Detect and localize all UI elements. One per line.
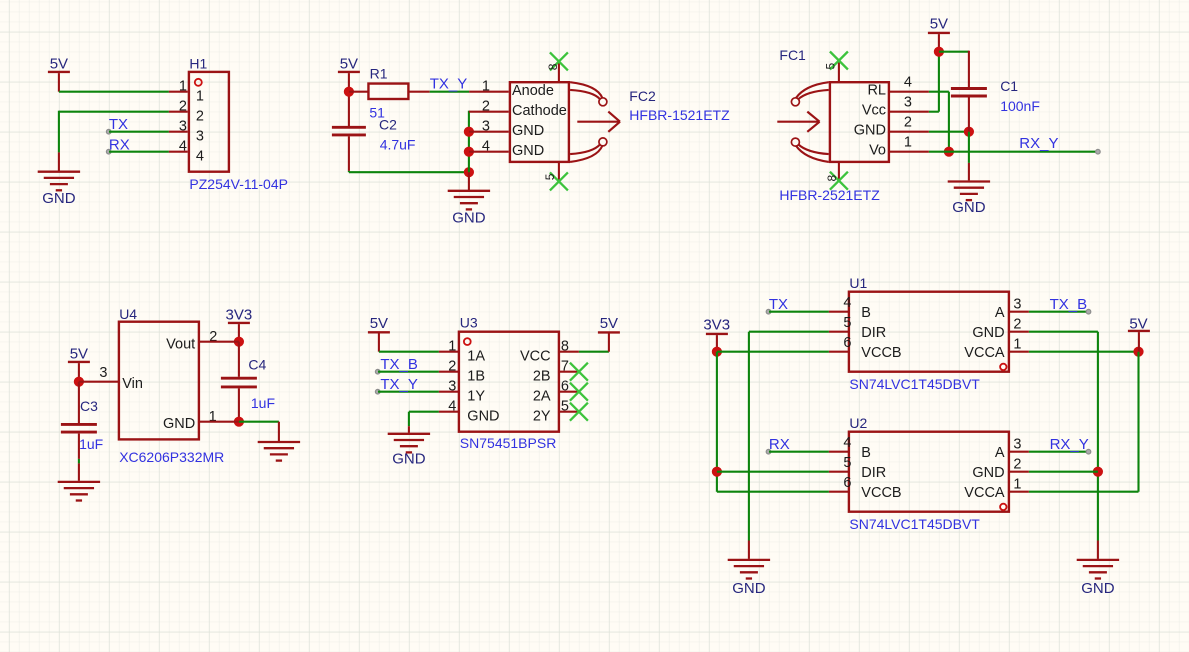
svg-text:3: 3 xyxy=(904,95,912,111)
svg-text:GND: GND xyxy=(732,580,766,597)
svg-text:GND: GND xyxy=(42,190,76,207)
svg-text:HFBR-1521ETZ: HFBR-1521ETZ xyxy=(629,107,730,123)
svg-text:FC2: FC2 xyxy=(629,88,656,104)
svg-text:5: 5 xyxy=(843,315,851,331)
svg-text:SN74LVC1T45DBVT: SN74LVC1T45DBVT xyxy=(849,376,980,392)
svg-text:4: 4 xyxy=(843,435,851,451)
svg-text:2: 2 xyxy=(904,115,912,131)
svg-text:1: 1 xyxy=(1013,477,1021,493)
svg-text:5: 5 xyxy=(543,173,557,180)
svg-text:5V: 5V xyxy=(930,15,948,32)
svg-text:2: 2 xyxy=(1013,457,1021,473)
svg-text:GND: GND xyxy=(972,465,1004,481)
svg-text:C3: C3 xyxy=(80,398,98,414)
svg-text:1uF: 1uF xyxy=(251,395,275,411)
svg-text:DIR: DIR xyxy=(861,325,886,341)
svg-text:RL: RL xyxy=(867,83,886,99)
svg-text:4: 4 xyxy=(843,295,851,311)
svg-text:Vo: Vo xyxy=(869,143,886,159)
svg-text:1A: 1A xyxy=(467,349,485,365)
svg-text:H1: H1 xyxy=(189,56,207,72)
svg-text:TX_Y: TX_Y xyxy=(380,376,418,393)
svg-text:8: 8 xyxy=(825,175,839,182)
svg-text:DIR: DIR xyxy=(861,465,886,481)
svg-text:U1: U1 xyxy=(849,275,867,291)
svg-text:1: 1 xyxy=(196,89,204,105)
svg-text:5: 5 xyxy=(843,455,851,471)
svg-text:4: 4 xyxy=(904,75,912,91)
svg-text:2A: 2A xyxy=(533,389,551,405)
svg-text:PZ254V-11-04P: PZ254V-11-04P xyxy=(189,176,288,192)
svg-text:5: 5 xyxy=(823,63,837,70)
svg-text:2B: 2B xyxy=(533,369,551,385)
svg-text:5V: 5V xyxy=(340,56,358,73)
svg-text:Vout: Vout xyxy=(166,336,195,352)
svg-text:SN74LVC1T45DBVT: SN74LVC1T45DBVT xyxy=(849,516,980,532)
svg-text:A: A xyxy=(995,445,1005,461)
svg-text:RX: RX xyxy=(769,436,790,453)
svg-text:2: 2 xyxy=(179,98,187,114)
svg-text:GND: GND xyxy=(512,123,544,139)
svg-text:1: 1 xyxy=(1013,337,1021,353)
svg-text:GND: GND xyxy=(512,143,544,159)
svg-text:1B: 1B xyxy=(467,369,485,385)
svg-text:1uF: 1uF xyxy=(79,436,103,452)
svg-text:3: 3 xyxy=(179,118,187,134)
svg-text:R1: R1 xyxy=(370,66,388,82)
svg-text:6: 6 xyxy=(843,335,851,351)
svg-text:4.7uF: 4.7uF xyxy=(380,136,416,152)
svg-text:4: 4 xyxy=(179,138,187,154)
svg-text:Anode: Anode xyxy=(512,83,554,99)
svg-text:3V3: 3V3 xyxy=(226,307,253,324)
svg-text:C1: C1 xyxy=(1000,78,1018,94)
svg-text:VCCA: VCCA xyxy=(964,345,1005,361)
svg-text:RX_Y: RX_Y xyxy=(1050,436,1089,453)
svg-text:2: 2 xyxy=(482,99,490,115)
svg-text:HFBR-2521ETZ: HFBR-2521ETZ xyxy=(779,187,880,203)
svg-text:TX: TX xyxy=(109,116,128,133)
svg-text:5V: 5V xyxy=(50,56,68,73)
svg-text:TX: TX xyxy=(769,296,788,313)
svg-text:100nF: 100nF xyxy=(1000,98,1040,114)
svg-text:4: 4 xyxy=(482,139,490,155)
svg-text:GND: GND xyxy=(1081,580,1115,597)
svg-text:3: 3 xyxy=(1013,297,1021,313)
svg-text:B: B xyxy=(861,445,871,461)
svg-text:RX: RX xyxy=(109,136,130,153)
svg-text:VCCB: VCCB xyxy=(861,485,901,501)
svg-text:C4: C4 xyxy=(248,356,266,372)
svg-text:3: 3 xyxy=(99,365,107,381)
svg-text:1Y: 1Y xyxy=(467,389,485,405)
svg-text:TX_B: TX_B xyxy=(380,356,418,373)
svg-text:2: 2 xyxy=(1013,317,1021,333)
svg-text:XC6206P332MR: XC6206P332MR xyxy=(119,449,224,465)
svg-text:Cathode: Cathode xyxy=(512,103,567,119)
svg-text:GND: GND xyxy=(952,199,986,216)
svg-text:GND: GND xyxy=(163,416,195,432)
svg-text:GND: GND xyxy=(392,450,426,467)
svg-text:GND: GND xyxy=(972,325,1004,341)
svg-text:SN75451BPSR: SN75451BPSR xyxy=(460,435,557,451)
svg-text:2Y: 2Y xyxy=(533,409,551,425)
svg-text:3V3: 3V3 xyxy=(703,317,730,334)
svg-text:3: 3 xyxy=(482,119,490,135)
svg-text:RX_Y: RX_Y xyxy=(1019,135,1058,152)
svg-text:VCCB: VCCB xyxy=(861,345,901,361)
svg-text:5V: 5V xyxy=(370,315,388,332)
svg-text:TX_B: TX_B xyxy=(1050,296,1088,313)
svg-text:3: 3 xyxy=(1013,437,1021,453)
svg-text:4: 4 xyxy=(196,149,204,165)
svg-text:Vin: Vin xyxy=(122,376,143,392)
svg-text:8: 8 xyxy=(546,63,560,70)
svg-text:C2: C2 xyxy=(379,116,397,132)
svg-text:VCC: VCC xyxy=(520,349,551,365)
svg-text:VCCA: VCCA xyxy=(964,485,1005,501)
svg-text:5V: 5V xyxy=(600,315,618,332)
svg-text:2: 2 xyxy=(196,109,204,125)
svg-text:1: 1 xyxy=(482,79,490,95)
svg-text:U4: U4 xyxy=(119,306,137,322)
svg-text:FC1: FC1 xyxy=(779,47,806,63)
svg-text:U3: U3 xyxy=(460,314,478,330)
svg-text:1: 1 xyxy=(179,78,187,94)
svg-text:1: 1 xyxy=(904,135,912,151)
svg-text:A: A xyxy=(995,305,1005,321)
svg-text:U2: U2 xyxy=(849,415,867,431)
svg-text:GND: GND xyxy=(854,123,886,139)
svg-text:3: 3 xyxy=(196,129,204,145)
svg-text:6: 6 xyxy=(843,475,851,491)
svg-text:GND: GND xyxy=(452,209,486,226)
svg-text:5V: 5V xyxy=(70,345,88,362)
svg-text:Vcc: Vcc xyxy=(862,103,886,119)
svg-text:GND: GND xyxy=(467,409,499,425)
svg-text:TX_Y: TX_Y xyxy=(430,75,468,92)
svg-text:B: B xyxy=(861,305,871,321)
